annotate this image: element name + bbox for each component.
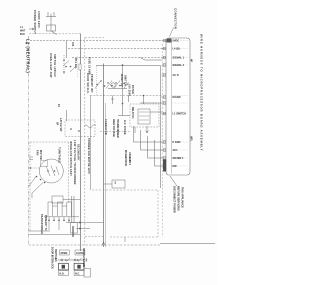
svg-text:WIRE HARNESS TO MICROPROCESSOR: WIRE HARNESS TO MICROPROCESSOR BOARD ASS… — [199, 34, 203, 151]
wire stair 1 — [134, 126, 163, 142]
chart header cell 1 — [60, 250, 70, 255]
relay lead 2 — [134, 127, 136, 133]
svg-text:L1 SWITCH: L1 SWITCH — [173, 113, 187, 116]
svg-text:TRANSFORMER: TRANSFORMER — [116, 119, 119, 138]
bus L1 main (solid) — [80, 34, 82, 252]
chart bottom cell 1 — [59, 271, 69, 276]
pin 5 — [162, 96, 167, 99]
svg-text:SWITCH SHOWN: SWITCH SHOWN — [82, 248, 85, 268]
switch S1 cluster — [63, 59, 71, 73]
svg-text:N/GND: N/GND — [173, 96, 181, 99]
relay RY1 body — [138, 109, 150, 124]
arrow marker L1 — [29, 28, 34, 30]
svg-text:AC1: AC1 — [173, 149, 179, 152]
pin 10 — [162, 157, 167, 160]
pin 1 — [162, 39, 167, 42]
svg-text:RY-1 N.O.: RY-1 N.O. — [74, 58, 77, 69]
junction bar — [72, 226, 74, 237]
svg-text:TURNTABLE: TURNTABLE — [58, 147, 61, 163]
bus L2 (NEUTRAL) — [28, 36, 30, 245]
lamp L1 — [111, 83, 115, 87]
wire node C — [66, 222, 104, 224]
interlock switch contacts — [96, 80, 125, 86]
chart state box 1 — [59, 263, 69, 270]
wire vertical — [90, 96, 92, 191]
chart switch symbols — [58, 258, 88, 262]
svg-text:DOOR INTERLOCK: DOOR INTERLOCK — [51, 247, 54, 269]
svg-text:(4P): (4P) — [190, 136, 193, 141]
power cord plug P1 — [46, 12, 57, 35]
pin 7 — [162, 112, 167, 115]
svg-text:16A 250V: 16A 250V — [128, 84, 131, 96]
svg-text:RATED: RATED — [131, 85, 134, 94]
pin 4b — [162, 74, 167, 77]
chart header cell 2 — [75, 250, 85, 255]
pin 9 — [162, 149, 167, 152]
wire pair to junction — [72, 196, 74, 223]
svg-text:ASSEMBLY: ASSEMBLY — [128, 152, 131, 165]
wire into interlock box — [66, 110, 68, 121]
switch box — [41, 161, 48, 167]
svg-text:FAN: FAN — [36, 150, 39, 155]
wire bottom 1 — [29, 230, 51, 232]
wire stair 3 — [148, 136, 163, 158]
pin 4 — [162, 64, 167, 67]
pin 8 — [162, 141, 167, 144]
svg-text:CAPACITOR: CAPACITOR — [104, 119, 107, 135]
wire node D — [76, 228, 90, 230]
svg-text:CONNECTOR: CONNECTOR — [174, 8, 178, 29]
svg-text:OVEN LIGHT 40W: OVEN LIGHT 40W — [49, 53, 52, 78]
wire tick — [124, 237, 126, 242]
legend box — [84, 269, 91, 278]
wire segment (dashed) — [90, 95, 162, 97]
chart state box 2 — [74, 263, 84, 270]
svg-text:MAGNETRON: MAGNETRON — [124, 150, 127, 166]
switch S2 — [29, 157, 36, 186]
svg-text:P GND: P GND — [173, 141, 181, 144]
svg-text:5VDC: 5VDC — [173, 40, 180, 43]
connector pin column divider — [171, 40, 173, 174]
wire to connector pin 3a (solid) — [140, 58, 162, 61]
wire segment — [63, 199, 80, 201]
svg-text:PRIMARY INT.: PRIMARY INT. — [90, 74, 93, 93]
motor winding marks — [46, 166, 59, 177]
pin 3 — [162, 56, 167, 59]
wire bottom 2 — [29, 234, 81, 236]
svg-text:4P: 4P — [190, 59, 193, 62]
arrowhead at bus bottom — [102, 242, 105, 246]
wire tee node — [111, 96, 114, 105]
svg-text:15A: 15A — [71, 42, 74, 47]
wire stub (dotted) — [77, 56, 79, 78]
svg-text:SIGNAL 1: SIGNAL 1 — [173, 57, 185, 60]
bus secondary (solid) — [103, 64, 105, 248]
wire stair 4 — [155, 140, 163, 166]
svg-text:LOW VOLTAGE TRANSFORMER: LOW VOLTAGE TRANSFORMER — [73, 140, 76, 185]
thermostat box — [112, 180, 125, 188]
enclosure border (dashed) — [84, 38, 86, 246]
svg-text:SIGNAL 2: SIGNAL 2 — [173, 64, 185, 67]
inner enclosure bottom (dashed) — [92, 189, 158, 191]
wire to connector pin 3 (dashed) — [72, 57, 162, 59]
wire motor to bus — [32, 183, 43, 199]
svg-text:CORD 120V: CORD 120V — [37, 11, 41, 28]
svg-text:THIS APPLIANCE: THIS APPLIANCE — [181, 187, 184, 208]
wire to connector pin 5 — [140, 102, 162, 104]
wire thermostat — [104, 183, 113, 185]
terminal box — [71, 223, 78, 234]
wire stub node — [128, 96, 130, 103]
inner enclosure bottom 2 (dashed) — [110, 236, 158, 238]
chart bottom cell 2 — [74, 271, 84, 276]
svg-text:H.V. DIODE: H.V. DIODE — [123, 120, 126, 135]
svg-text:DISCONNECT POWER: DISCONNECT POWER — [173, 186, 176, 213]
wire node B to relay — [143, 96, 145, 105]
connector key (dark) — [167, 39, 172, 43]
interlock box (dashed) — [65, 120, 95, 137]
pin block (dark) — [163, 160, 166, 172]
pin 11 — [162, 165, 167, 168]
wire relay to pin — [150, 111, 162, 113]
transformer T1 (coil) — [44, 202, 79, 230]
pin 2 — [162, 47, 167, 50]
wire L1 from plug to bus (dashed) — [29, 33, 80, 35]
enclosure top edge (dashed) — [85, 37, 104, 39]
connector row leaders (dotted) — [173, 41, 189, 167]
wire from L2 bus — [29, 167, 41, 169]
junction node B — [143, 95, 145, 97]
diagonal leader — [170, 176, 177, 186]
fan motor M1 — [39, 159, 63, 183]
enclosure right border (dashed) — [162, 44, 164, 237]
junction node C — [79, 222, 81, 224]
relay lead with arrow — [146, 126, 149, 133]
svg-text:RELAY K1: RELAY K1 — [131, 107, 134, 119]
wire segment (dashed) — [85, 236, 104, 238]
svg-text:MOTOR: MOTOR — [39, 150, 42, 160]
svg-text:DW: DW — [173, 165, 178, 168]
svg-text:WATER 1: WATER 1 — [173, 157, 185, 160]
svg-text:INTERLOCK SWITCH ASSY: INTERLOCK SWITCH ASSY — [69, 141, 72, 176]
boundary bottom right (solid) — [160, 243, 215, 245]
junction dot — [122, 103, 124, 105]
svg-text:PRIMARY T1: PRIMARY T1 — [44, 215, 47, 231]
svg-text:SP: SP — [56, 122, 59, 126]
wire to connector pin 1 (dashed) — [30, 40, 162, 42]
junction node E — [122, 64, 124, 66]
relay RY1 box (dashed) — [130, 104, 159, 127]
interlock actuator curve — [84, 125, 96, 128]
svg-text:POWER SUPPLY: POWER SUPPLY — [33, 10, 37, 34]
wire drop at node A — [66, 41, 68, 59]
svg-text:N.O.: N.O. — [60, 273, 65, 276]
wire stub (dashed) — [96, 66, 98, 95]
inner enclosure right (dashed) — [157, 190, 159, 237]
capacitor box — [52, 196, 63, 203]
pin 6 — [162, 102, 167, 105]
svg-text:BLK: BLK — [20, 33, 25, 36]
motor assembly enclosure (dashed) — [30, 142, 69, 232]
wire to relay — [118, 115, 130, 117]
outer boundary bottom (dashed) — [29, 244, 161, 246]
svg-text:SWITCH 125VAC: SWITCH 125VAC — [53, 54, 56, 77]
junction node D — [79, 228, 81, 230]
fuse F1 — [79, 64, 81, 70]
wire stair 2 — [141, 130, 163, 150]
wire parallel run — [104, 103, 106, 247]
svg-text:SECONDARY: SECONDARY — [77, 144, 80, 161]
wire dashed box top (dashed) — [100, 131, 130, 133]
svg-text:SWITCHES: SWITCHES — [54, 249, 57, 262]
svg-text:N.C.: N.C. — [75, 273, 80, 276]
svg-text:HIGH VOLTAGE: HIGH VOLTAGE — [112, 119, 115, 137]
wire to connector pin 4 — [96, 66, 161, 189]
svg-text:SWITCH: SWITCH — [124, 75, 127, 86]
svg-text:L2 (NEUTRAL): L2 (NEUTRAL) — [26, 39, 31, 73]
svg-text:L4 (B): L4 (B) — [173, 48, 180, 51]
svg-text:DOOR SW N.O.: DOOR SW N.O. — [86, 73, 89, 94]
wire switch row — [108, 88, 127, 90]
svg-text:STIRRER FAN MOTOR 120V: STIRRER FAN MOTOR 120V — [87, 138, 90, 174]
svg-text:BEFORE SERVICING: BEFORE SERVICING — [177, 186, 180, 211]
svg-text:AC N: AC N — [173, 74, 179, 77]
connector J1 outline — [166, 38, 190, 175]
wire branch vertical — [122, 66, 124, 116]
wire to connector pin 2 (dashed) — [68, 48, 162, 50]
svg-text:OPEN: OPEN — [61, 252, 68, 255]
leader line — [170, 28, 174, 37]
